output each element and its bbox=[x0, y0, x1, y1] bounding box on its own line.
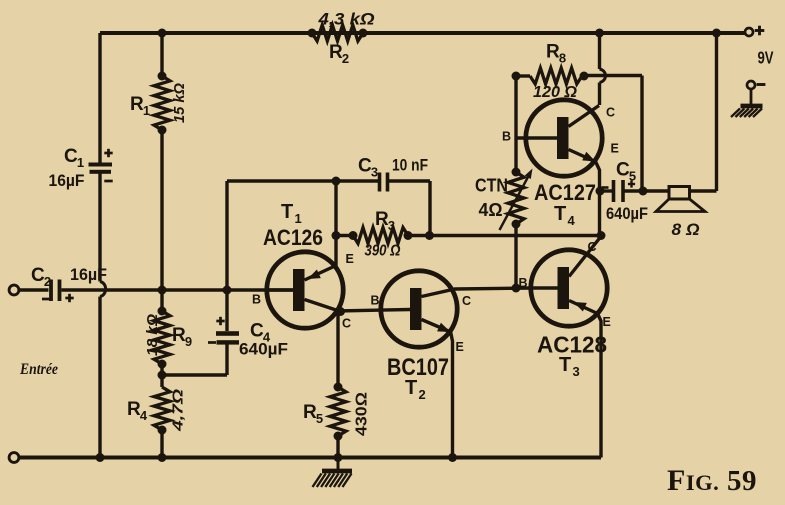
svg-text:R: R bbox=[303, 402, 317, 423]
svg-text:C: C bbox=[250, 321, 264, 342]
svg-text:9V: 9V bbox=[758, 48, 774, 68]
svg-text:B: B bbox=[371, 294, 380, 308]
svg-text:B: B bbox=[502, 130, 511, 144]
svg-text:390 Ω: 390 Ω bbox=[365, 243, 401, 260]
svg-text:8: 8 bbox=[559, 51, 566, 66]
svg-text:AC127: AC127 bbox=[534, 180, 596, 205]
svg-text:18 kΩ: 18 kΩ bbox=[144, 314, 161, 356]
svg-text:R: R bbox=[172, 325, 186, 346]
svg-text:3: 3 bbox=[388, 218, 395, 233]
svg-text:R: R bbox=[127, 399, 141, 420]
svg-text:C: C bbox=[462, 294, 471, 308]
svg-text:640µF: 640µF bbox=[606, 205, 648, 223]
svg-text:AC128: AC128 bbox=[537, 332, 607, 358]
svg-text:16µF: 16µF bbox=[70, 266, 107, 284]
svg-text:BC107: BC107 bbox=[387, 354, 449, 381]
svg-text:CTN: CTN bbox=[475, 175, 508, 196]
svg-text:C: C bbox=[606, 106, 615, 120]
svg-text:C: C bbox=[64, 146, 78, 167]
svg-text:R: R bbox=[130, 94, 144, 115]
svg-text:4: 4 bbox=[263, 330, 271, 345]
svg-text:2: 2 bbox=[342, 51, 349, 66]
svg-text:B: B bbox=[252, 293, 261, 307]
svg-text:C: C bbox=[358, 156, 372, 177]
svg-text:5: 5 bbox=[316, 411, 323, 426]
svg-text:8 Ω: 8 Ω bbox=[672, 220, 700, 239]
svg-text:C: C bbox=[342, 317, 351, 331]
svg-text:430Ω: 430Ω bbox=[354, 392, 371, 436]
svg-text:4,3 kΩ: 4,3 kΩ bbox=[317, 11, 374, 29]
svg-text:3: 3 bbox=[573, 364, 580, 379]
svg-text:10 nF: 10 nF bbox=[392, 157, 428, 175]
svg-text:2: 2 bbox=[44, 274, 51, 289]
svg-text:C: C bbox=[588, 240, 597, 254]
svg-text:4Ω: 4Ω bbox=[479, 200, 503, 220]
svg-text:Entrée: Entrée bbox=[19, 361, 58, 378]
svg-text:E: E bbox=[611, 142, 619, 156]
svg-text:C: C bbox=[31, 265, 45, 286]
svg-text:2: 2 bbox=[419, 387, 426, 402]
svg-text:3: 3 bbox=[371, 165, 378, 180]
svg-text:9: 9 bbox=[185, 334, 192, 349]
svg-text:E: E bbox=[456, 340, 464, 354]
svg-text:120 Ω: 120 Ω bbox=[533, 84, 577, 101]
svg-text:5: 5 bbox=[629, 169, 636, 184]
svg-text:4: 4 bbox=[568, 213, 576, 228]
svg-text:T: T bbox=[554, 203, 566, 225]
svg-text:B: B bbox=[519, 276, 528, 290]
svg-text:R: R bbox=[329, 42, 343, 63]
svg-text:E: E bbox=[603, 315, 611, 329]
svg-text:R: R bbox=[375, 209, 389, 230]
svg-text:T: T bbox=[281, 201, 293, 223]
svg-text:16µF: 16µF bbox=[49, 171, 85, 190]
svg-text:15 kΩ: 15 kΩ bbox=[171, 83, 188, 123]
svg-text:E: E bbox=[346, 252, 354, 266]
svg-text:C: C bbox=[616, 160, 630, 181]
svg-text:1: 1 bbox=[295, 211, 302, 226]
svg-text:1: 1 bbox=[143, 103, 150, 118]
svg-text:1: 1 bbox=[77, 155, 84, 170]
svg-text:AC126: AC126 bbox=[263, 225, 323, 250]
svg-text:4: 4 bbox=[140, 408, 148, 423]
svg-text:R: R bbox=[546, 42, 560, 63]
svg-text:4,7Ω: 4,7Ω bbox=[170, 389, 187, 433]
